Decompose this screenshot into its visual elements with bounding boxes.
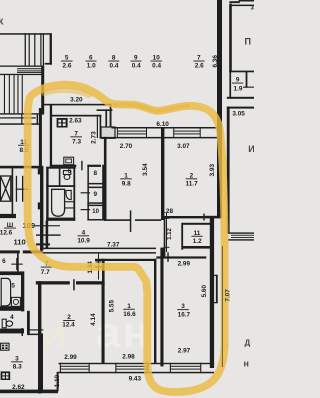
- stairwell right wall: [50, 33, 52, 64]
- svg-text:7.7: 7.7: [41, 269, 50, 276]
- bath sink apt110: [11, 297, 20, 306]
- closet10 door dash: [81, 209, 91, 210]
- dim line 1.28 vertical: [166, 213, 167, 252]
- closet8 bottom wall: [87, 183, 104, 185]
- room 11 right wall inner: [37, 115, 39, 125]
- svg-text:3: 3: [181, 303, 185, 310]
- rooms 2-1 divider wall: [102, 281, 105, 363]
- leader dash 109: [35, 225, 60, 226]
- room3 niche inner line: [216, 275, 218, 303]
- svg-text:5: 5: [65, 55, 69, 62]
- kitchen bottom wall right part: [87, 165, 101, 167]
- corridor4 south wall piece near room3: [160, 248, 164, 259]
- svg-text:2.97: 2.97: [178, 348, 191, 355]
- closets east wall: [102, 165, 104, 221]
- shaft column line1: [12, 168, 14, 214]
- svg-text:1.2: 1.2: [193, 238, 202, 245]
- svg-text:11: 11: [194, 230, 201, 237]
- svg-text:3.07: 3.07: [177, 143, 190, 150]
- stair steps lines: [17, 68, 42, 69]
- svg-text:2.62: 2.62: [12, 384, 25, 391]
- bathtub apt109: [52, 189, 65, 216]
- room9 top wall: [229, 71, 254, 73]
- svg-text:Д: Д: [245, 339, 251, 348]
- wc4 bottom wall: [0, 329, 24, 334]
- closets west wall: [87, 165, 89, 221]
- svg-text:7.3: 7.3: [72, 139, 81, 146]
- room9 west wall: [229, 71, 231, 99]
- svg-text:3.20: 3.20: [70, 97, 83, 104]
- elevator shaft outline: [0, 176, 10, 201]
- svg-text:8: 8: [112, 55, 116, 62]
- stair landing band bottom: [0, 74, 42, 75]
- hall divider small vertical: [21, 114, 22, 124]
- svg-text:3.05: 3.05: [232, 110, 245, 117]
- room1 door leaf tick: [130, 210, 132, 232]
- stove kitchen7: [57, 118, 68, 128]
- svg-text:8.3: 8.3: [13, 364, 22, 371]
- kitchen3 top wall piece: [27, 334, 41, 336]
- svg-text:н: н: [244, 359, 249, 369]
- svg-text:2.70: 2.70: [120, 143, 133, 150]
- room3 west wall: [160, 256, 163, 366]
- apt109 north-east corner vertical: [110, 104, 112, 129]
- vent shaft box: [101, 127, 115, 138]
- svg-text:2: 2: [67, 314, 71, 321]
- svg-text:2.98: 2.98: [122, 353, 135, 360]
- svg-text:7.07: 7.07: [225, 289, 232, 302]
- corridor nested vertical: [105, 109, 107, 128]
- bath block top wall: [46, 167, 75, 169]
- kitchen inner right wall: [97, 115, 98, 138]
- svg-text:2.6: 2.6: [195, 63, 204, 70]
- room2 door jamb: [203, 214, 204, 221]
- wall between room1 and room2: [161, 128, 164, 220]
- svg-text:7: 7: [74, 130, 78, 137]
- svg-text:1.28: 1.28: [161, 208, 174, 215]
- svg-text:6.36: 6.36: [212, 55, 219, 68]
- svg-text:9: 9: [236, 77, 240, 84]
- svg-text:2.63: 2.63: [69, 117, 82, 124]
- svg-text:1.10: 1.10: [54, 374, 61, 387]
- svg-text:10: 10: [153, 55, 161, 62]
- left section east wall upper: [41, 66, 44, 114]
- wc/bath middle wall: [46, 185, 75, 187]
- svg-text:2.73: 2.73: [91, 131, 98, 144]
- svg-text:12.4: 12.4: [62, 321, 75, 328]
- svg-text:0.4: 0.4: [110, 63, 119, 70]
- svg-text:0.4: 0.4: [132, 63, 141, 70]
- svg-text:7: 7: [197, 55, 201, 62]
- svg-text:1.12: 1.12: [167, 228, 173, 240]
- svg-text:11.7: 11.7: [186, 181, 199, 188]
- svg-text:1.9: 1.9: [234, 85, 243, 92]
- door dash at room1-16 nw: [95, 266, 105, 267]
- wc east wall: [73, 167, 75, 187]
- svg-text:12.6: 12.6: [0, 230, 13, 237]
- room6 door dash: [11, 264, 22, 265]
- closet9 top wall: [87, 187, 104, 189]
- svg-text:6: 6: [68, 168, 72, 175]
- svg-text:10: 10: [92, 209, 99, 215]
- kitchen3 door dash: [29, 329, 43, 330]
- closet11 top wall: [182, 223, 213, 225]
- bath block west wall: [46, 167, 48, 221]
- room6 east wall: [17, 253, 19, 271]
- bath block bottom wall: [46, 218, 75, 221]
- svg-text:4: 4: [82, 229, 86, 236]
- corridor4 south wall line1: [42, 248, 156, 250]
- shaft column line3: [22, 176, 23, 202]
- dim line 1.28 tick top: [164, 218, 170, 219]
- room 11 right wall outer: [39, 108, 42, 168]
- closet10 bottom wall: [87, 219, 104, 221]
- bath5 bottom wall: [0, 306, 24, 311]
- svg-text:2.99: 2.99: [64, 354, 77, 361]
- room3 niche cap bottom: [211, 302, 217, 303]
- room9 east wall piece: [246, 72, 248, 88]
- kitchen west wall: [50, 105, 52, 168]
- svg-text:9.8: 9.8: [122, 181, 131, 188]
- svg-text:110: 110: [13, 237, 25, 246]
- room2-12 top wall: [36, 281, 70, 284]
- stair landing band top: [0, 66, 42, 67]
- apt109 entry vestibule wall vertical: [46, 221, 49, 249]
- svg-text:2: 2: [190, 172, 194, 179]
- hallway west wall: [164, 218, 166, 257]
- svg-text:9: 9: [94, 191, 98, 198]
- room2-12 west wall: [38, 281, 41, 393]
- dim line 1.28 tick bottom: [164, 247, 170, 248]
- kitchen bottom wall left part: [50, 165, 77, 167]
- svg-text:5: 5: [11, 282, 15, 289]
- apt109 north wall: [42, 104, 111, 106]
- stairwell flight verticals: [25, 33, 26, 65]
- room 11 bottom wall: [0, 166, 42, 169]
- svg-text:6: 6: [89, 55, 93, 62]
- room1-16 west wall upper: [102, 259, 105, 285]
- kitchen3 east wall: [40, 333, 43, 391]
- window1 lines: [61, 366, 90, 367]
- svg-text:3.93: 3.93: [209, 164, 216, 177]
- rooms 1-2 top wall upper line: [112, 127, 222, 129]
- hall bottom band line1: [0, 113, 44, 114]
- north wall of bottom rooms: [95, 259, 156, 261]
- room9 door line: [243, 87, 254, 88]
- svg-text:4.14: 4.14: [90, 313, 97, 326]
- yellow highlight stroke: [28, 85, 225, 392]
- stair-side wall notch upper: [38, 168, 42, 174]
- svg-text:9: 9: [134, 55, 138, 62]
- closet10 top wall: [87, 205, 104, 207]
- room1 west wall: [104, 137, 107, 221]
- svg-text:2.6: 2.6: [63, 63, 72, 70]
- hall verticals below landing: [4, 75, 5, 114]
- bath east wall: [73, 185, 75, 221]
- svg-text:К: К: [0, 18, 4, 27]
- east building wall upper: [217, 0, 222, 218]
- right apt top stub: [229, 1, 239, 3]
- landing bottom wall right: [23, 250, 43, 253]
- svg-text:3.54: 3.54: [142, 163, 149, 176]
- kitchen3 south wall: [0, 390, 58, 394]
- svg-text:6: 6: [2, 258, 6, 265]
- shaft column line2: [16, 176, 17, 202]
- room3 niche cap top: [211, 275, 217, 276]
- kitchen7 sink: [64, 157, 74, 165]
- east wall jog: [203, 216, 222, 219]
- facade jog vertical: [57, 372, 59, 392]
- hall bottom band line2: [0, 117, 36, 118]
- kitchen door tick: [81, 161, 82, 171]
- svg-text:3: 3: [15, 355, 19, 362]
- room3 top wall: [156, 256, 206, 258]
- svg-text:5.60: 5.60: [201, 285, 208, 298]
- stairwell right wall cap: [45, 63, 52, 65]
- svg-text:16.6: 16.6: [123, 311, 136, 318]
- svg-text:16.7: 16.7: [178, 311, 191, 318]
- elevator X brace: [0, 176, 10, 201]
- wall below elevator: [0, 214, 16, 218]
- closet9 bottom wall: [87, 202, 104, 204]
- bath door dash1: [65, 201, 75, 202]
- svg-text:9.43: 9.43: [129, 376, 142, 383]
- closet11 bottom wall: [182, 246, 213, 249]
- kitchen top wall: [51, 115, 102, 117]
- room 11 top wall: [0, 123, 39, 125]
- kitchen3 stove: [1, 343, 9, 350]
- corridor4 south wall line2: [42, 252, 156, 254]
- svg-text:5.55: 5.55: [108, 300, 115, 313]
- right apt top wall: [231, 5, 254, 7]
- wc6 toilet tank: [63, 171, 70, 175]
- landing bottom wall left: [0, 250, 20, 253]
- svg-text:1: 1: [127, 303, 131, 310]
- south facade window band top: [59, 363, 215, 364]
- bath5 east wall: [21, 271, 24, 311]
- svg-text:10.9: 10.9: [77, 238, 90, 245]
- right apt west wall lower: [227, 107, 230, 234]
- hallway east wall: [181, 223, 183, 250]
- svg-text:4: 4: [10, 314, 14, 321]
- window2 lines: [116, 366, 148, 367]
- wc west wall: [59, 167, 61, 187]
- svg-text:П: П: [245, 37, 251, 47]
- svg-text:И: И: [248, 144, 254, 154]
- room6 door tick: [16, 258, 17, 270]
- stair-side wall notch lower: [38, 202, 42, 209]
- wc6 toilet bowl: [64, 175, 70, 180]
- south facade window band bottom: [59, 372, 215, 374]
- svg-text:3.: 3.: [251, 5, 255, 11]
- wc4 door tick: [22, 328, 24, 336]
- room2 window lines: [174, 131, 201, 132]
- room2-12 door tick: [73, 279, 75, 290]
- room9 bottom wall: [227, 97, 254, 99]
- room6 bottom wall: [0, 271, 22, 275]
- svg-text:и: и: [40, 310, 67, 359]
- svg-text:6.10: 6.10: [156, 121, 169, 128]
- svg-text:0.4: 0.4: [152, 63, 161, 70]
- svg-text:2.99: 2.99: [178, 260, 191, 267]
- rooms 1-2 top wall lower line: [101, 137, 222, 139]
- landing east wall: [40, 166, 43, 251]
- bath sink apt109: [66, 190, 71, 199]
- rooms bottom wall (room1 part): [104, 219, 131, 221]
- room2 bottom wall: [161, 216, 203, 218]
- bathtub apt110: [1, 278, 10, 305]
- bath door dash2: [65, 207, 75, 208]
- corridor nested wall line: [97, 109, 113, 111]
- door dash apt109 entry: [36, 234, 61, 235]
- right apt west wall upper: [229, 4, 232, 72]
- wc4 east wall: [27, 311, 30, 334]
- svg-text:1.0: 1.0: [87, 63, 96, 70]
- kitchen3 sink: [1, 371, 11, 380]
- room1 window lines: [118, 131, 147, 132]
- room1-16 east wall: [154, 259, 156, 364]
- right apt window band top: [228, 232, 254, 233]
- right apt window band bottom: [228, 239, 254, 240]
- room3 niche outer line: [211, 275, 213, 303]
- window3 lines: [171, 366, 201, 367]
- right apt window lines: [231, 234, 254, 237]
- svg-text:8: 8: [94, 170, 98, 177]
- dim 1.34 line: [98, 254, 99, 280]
- left section top wall: [0, 33, 51, 35]
- wc4 toilet: [2, 319, 6, 328]
- closet9 door dash: [81, 192, 91, 193]
- svg-text:1: 1: [124, 172, 128, 179]
- east building wall lower: [210, 217, 214, 368]
- room3 door tick: [167, 252, 168, 261]
- leader dash 110: [36, 243, 50, 245]
- shaft mid horizontal: [16, 189, 29, 190]
- svg-text:7.37: 7.37: [107, 241, 120, 248]
- right apt wall below room9: [227, 107, 254, 109]
- dim line 7.07 vertical (over highlight): [221, 246, 224, 367]
